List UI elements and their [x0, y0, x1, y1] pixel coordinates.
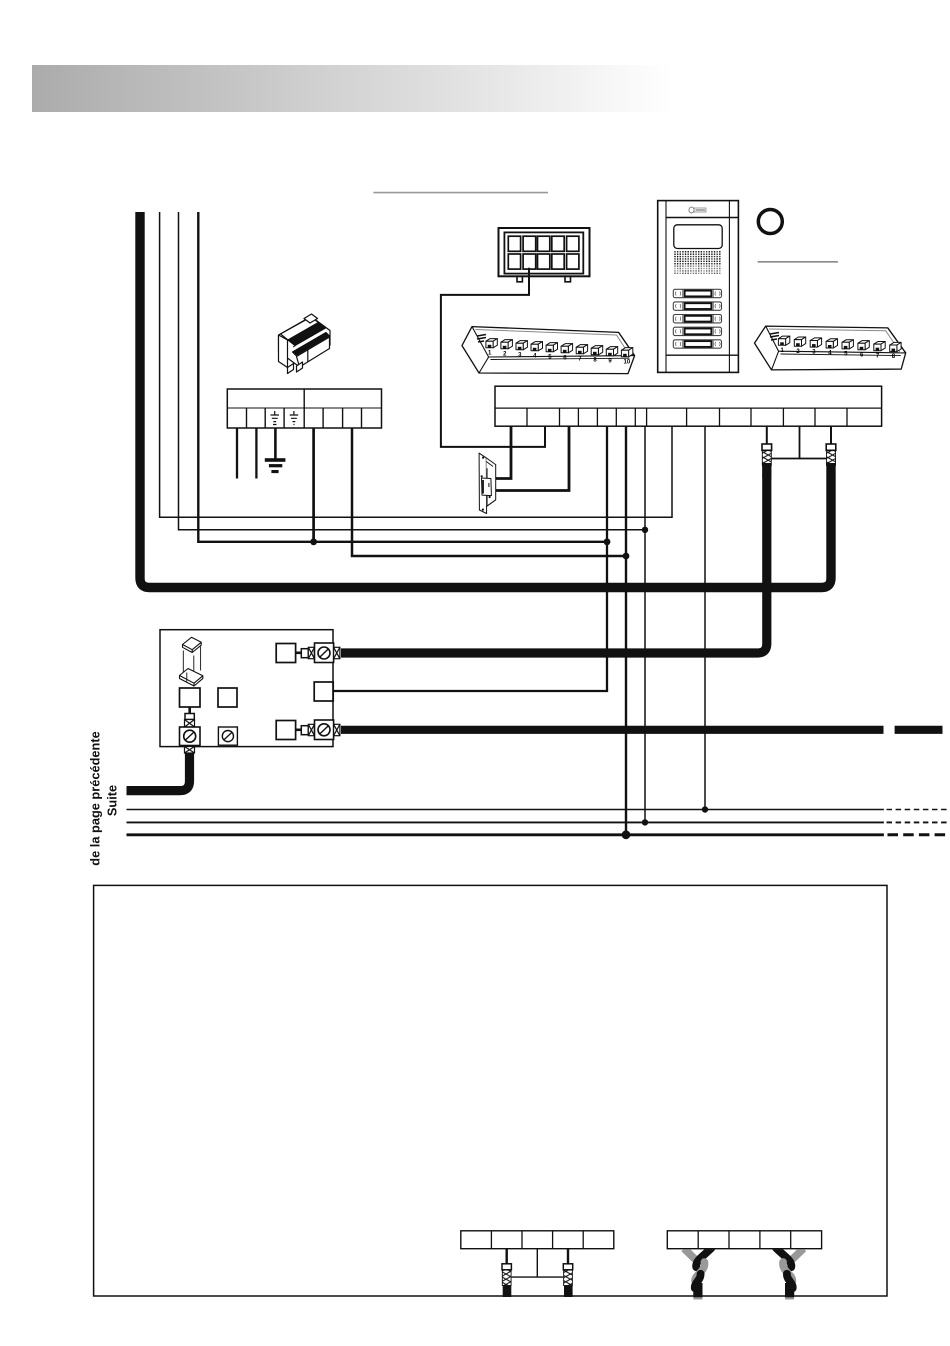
panel logo	[689, 207, 706, 213]
distributor D1 (10-way) body	[462, 327, 635, 374]
coax C1 sheath collar	[762, 466, 771, 479]
terminal strip TS1 outline	[227, 389, 381, 428]
wire big strip cell7 down to bottom line2	[644, 426, 646, 822]
D2 terminal 5	[842, 340, 853, 343]
svg-text:de la page précédente: de la page précédente	[88, 731, 103, 865]
junction node C	[623, 553, 630, 560]
U2 right assembly top: square	[276, 644, 295, 663]
panel buttons	[673, 289, 721, 348]
bottom strip TS4	[667, 1231, 821, 1249]
screw terminal D	[315, 720, 334, 740]
bottom strip TS3	[461, 1231, 614, 1249]
D1 terminal 2	[501, 340, 513, 343]
junction node B	[604, 538, 611, 545]
distributor D2 (8-way) body	[755, 326, 906, 370]
wire big strip cell5 down to module middle	[333, 426, 607, 691]
junction dots	[310, 527, 708, 840]
small rect	[301, 649, 308, 658]
junction node F	[642, 819, 648, 825]
call button row 2	[673, 302, 721, 310]
TS3 wire cell4	[567, 1249, 569, 1264]
wire from left strip cell7 to node x626	[352, 428, 626, 556]
keypad keys row1	[508, 236, 579, 251]
wire riser 2 to strip cell8	[160, 212, 672, 517]
D1 terminal 7	[576, 345, 587, 348]
keypad inner frame	[504, 232, 583, 273]
wire from TS1 cell2	[255, 428, 257, 479]
wire keypad loop	[441, 268, 545, 447]
wire from TS1 cell1	[236, 428, 238, 479]
header underline gray	[373, 192, 548, 194]
shield link wire	[772, 426, 827, 458]
keypad module outer frame	[499, 228, 590, 276]
U2 X-box below A	[185, 747, 195, 754]
apartment zone rectangle	[94, 885, 887, 1296]
call button row 5	[673, 340, 721, 348]
U2 middle square out	[314, 682, 333, 701]
D1 terminal 8	[591, 346, 603, 349]
svg-text:10: 10	[624, 359, 631, 365]
G1: placeholder groups inserted below	[140, 212, 831, 839]
D1 logo	[477, 335, 486, 343]
D1 terminal 5	[546, 343, 557, 346]
wire from TS1 cell3 to ground	[274, 428, 277, 459]
TS1 cell dividers	[247, 408, 362, 428]
panel window	[674, 225, 722, 249]
small rect	[301, 726, 308, 735]
bus line 1	[127, 809, 884, 811]
D2 logo	[770, 333, 779, 341]
amplifier module U2 box	[160, 630, 333, 747]
D1 terminal 1	[486, 339, 497, 342]
junction node E	[702, 806, 708, 812]
junction node G	[622, 830, 631, 839]
svg-text:Suite: Suite	[105, 785, 120, 816]
D1 terminal 4	[531, 342, 543, 345]
wire thick loop: coax right down, across bottom, up left riser	[140, 212, 831, 588]
keypad keys row2	[508, 254, 579, 269]
ground symbol	[265, 458, 286, 473]
door panel P1 outer frame	[658, 201, 739, 373]
coax C2 shield braid	[827, 450, 836, 465]
wire big strip cell9 down to bottom line1	[704, 426, 706, 809]
D1 terminal 6	[561, 344, 573, 347]
coax C2 jacket	[826, 444, 836, 450]
coax C1 shield braid	[762, 450, 771, 465]
junction node A	[310, 538, 317, 545]
bus line 2	[127, 821, 884, 823]
label line right	[758, 261, 838, 263]
U2 screw terminal B	[218, 727, 237, 745]
TS2 cell dividers	[527, 408, 847, 426]
wire from TS1 cell5 to node	[312, 428, 315, 542]
D2 terminal 4	[826, 339, 837, 342]
D2 terminal 2	[794, 337, 805, 340]
D2 terminal 3	[810, 338, 821, 341]
main terminal strip TS2 outline	[495, 386, 882, 426]
junction node D	[642, 527, 648, 533]
panel bottom line	[666, 354, 738, 356]
D1 terminal 9	[606, 347, 617, 350]
X-box right	[334, 647, 340, 658]
D2 terminal 8	[890, 342, 901, 345]
X-box	[308, 647, 314, 658]
strike screws	[481, 457, 491, 511]
door strike body	[486, 458, 495, 507]
call button row 4	[673, 327, 721, 335]
panel line under logo	[666, 217, 738, 219]
D1 terminal 10	[621, 348, 632, 351]
wire big strip cell6 down to bottom line3	[625, 426, 627, 835]
panel inner side lines	[665, 201, 667, 373]
twisted pair TP1	[684, 1248, 712, 1300]
call button row 1	[673, 289, 721, 297]
X-box right	[334, 724, 340, 735]
coax C1 stub	[766, 426, 768, 444]
header gradient banner	[32, 65, 672, 112]
bus line 3	[127, 833, 884, 836]
wire strike lower to big strip cell3	[496, 426, 569, 490]
power supply U1 (isometric DIN module)	[279, 317, 331, 367]
panel speaker grille	[674, 251, 720, 274]
U2 relay (isometric)	[180, 637, 203, 686]
coax C2 stub	[830, 426, 832, 444]
TS2 row divider	[495, 407, 882, 409]
D2 terminal 6	[858, 341, 869, 344]
wire riser 4 to node at x607	[198, 212, 607, 542]
TS1 row divider	[227, 407, 381, 409]
wire riser 3 to node at x645	[179, 212, 646, 530]
TS1 top divider	[303, 389, 305, 408]
earth glyph in cell4	[290, 411, 299, 425]
keypad foot right	[565, 276, 571, 282]
twisted pair TP2	[776, 1248, 804, 1300]
U2 output cable (thick, to previous page)	[127, 753, 190, 791]
coax C4	[563, 1264, 572, 1270]
D2 terminal 1	[778, 336, 789, 339]
coax C1 jacket	[762, 444, 772, 450]
U2 small rect	[185, 714, 194, 720]
U2 link below A	[188, 707, 191, 714]
X-box	[308, 724, 314, 735]
TS3 wire cell3 shield link	[512, 1249, 563, 1277]
link	[296, 651, 302, 654]
call button circle	[758, 210, 782, 234]
door strike L1 faceplate	[479, 453, 487, 513]
link	[296, 728, 302, 731]
U2 X-box above screw A	[185, 720, 195, 728]
coax C2 sheath collar	[827, 466, 836, 479]
U2 square B	[218, 688, 237, 707]
U2 square A	[180, 688, 201, 707]
wire strike upper from big strip cell1	[495, 426, 511, 478]
U2 right assembly bottom: square	[276, 721, 295, 740]
TS3 wire cell2	[506, 1249, 508, 1264]
D1 terminal 3	[516, 341, 527, 344]
coax C3	[502, 1264, 511, 1270]
keypad foot left	[517, 276, 522, 282]
earth glyph in cell3	[271, 411, 280, 425]
call button row 3	[673, 315, 721, 323]
D2 terminal 7	[874, 342, 885, 345]
U2 bottom thick wire to next page (with break)	[341, 726, 884, 734]
screw terminal C	[315, 643, 334, 663]
U2 screw terminal A	[180, 727, 201, 746]
door strike latch	[482, 478, 492, 496]
wire coax left thick down to module top	[341, 463, 767, 653]
